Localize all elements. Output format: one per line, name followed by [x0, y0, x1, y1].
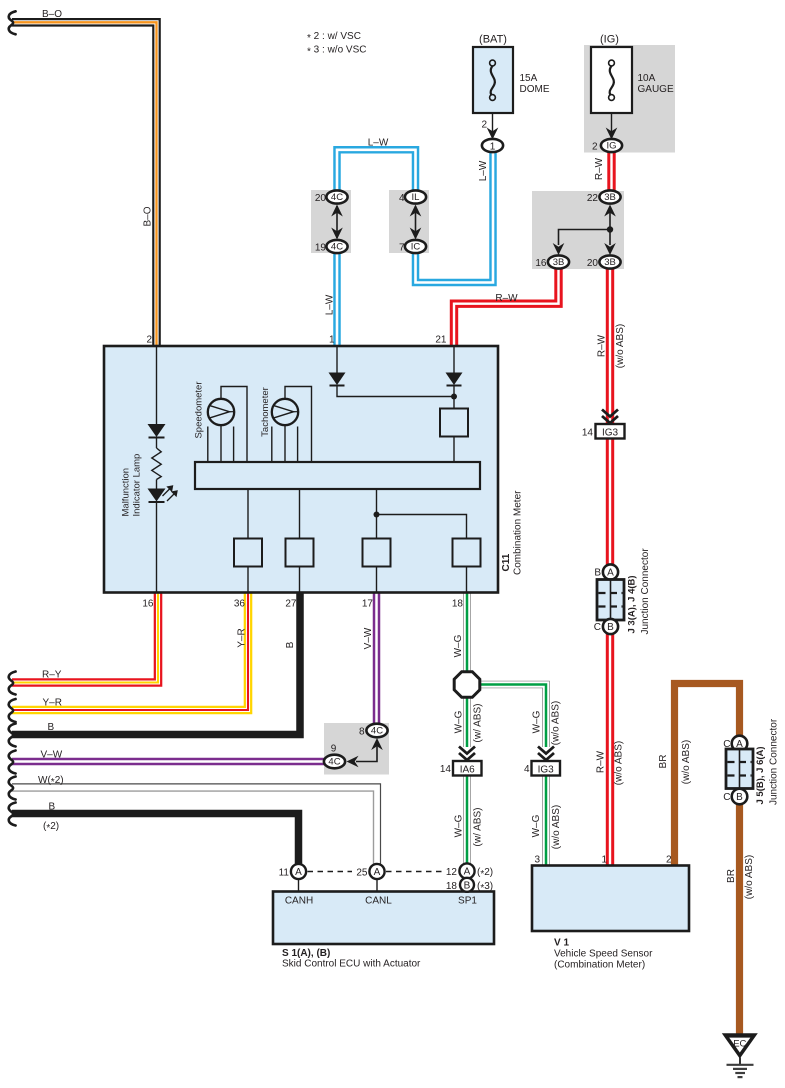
svg-text:CANH: CANH [285, 896, 313, 907]
wire bus to box B3 to pin 17 [376, 489, 378, 593]
link line 3B junction [559, 213, 611, 246]
svg-text:18: 18 [446, 881, 458, 892]
svg-text:3B: 3B [604, 257, 616, 268]
double chevron above IG3 (green) [538, 747, 554, 761]
connector box 14 IG3 (red wire) [596, 424, 625, 439]
svg-text:B: B [464, 880, 471, 891]
wire W-G from IG3 box down to V1 pin 3 [542, 775, 550, 866]
svg-text:W–G: W–G [532, 710, 543, 733]
svg-text:4C: 4C [331, 192, 343, 203]
junction connector J3(A) J4(B) circle A [603, 564, 618, 579]
svg-text:S 1(A), (B): S 1(A), (B) [282, 948, 330, 959]
svg-text:21: 21 [435, 335, 447, 346]
oval connector 3B (22) [599, 190, 620, 203]
svg-text:A: A [607, 568, 614, 579]
wire L-W from fuse oval 1 down-left to connector IC [416, 151, 494, 283]
svg-text:BR: BR [726, 869, 737, 883]
wire internal pin 1 to diode D1 [336, 346, 338, 373]
svg-text:B: B [607, 622, 614, 633]
oval connector IC (7) [405, 240, 426, 253]
wire R-W from 3B (16) down-left to C11 pin 21 [454, 267, 559, 346]
svg-text:4C: 4C [328, 757, 340, 768]
fuse 10A GAUGE box [591, 47, 632, 113]
EC ground triangle [722, 1033, 758, 1058]
svg-text:B–O: B–O [143, 206, 154, 226]
svg-text:Tachometer: Tachometer [260, 387, 271, 437]
svg-text:B: B [48, 722, 55, 733]
svg-text:Malfunction: Malfunction [121, 468, 132, 517]
svg-text:W–G: W–G [453, 634, 464, 657]
svg-text:4C: 4C [331, 242, 343, 253]
svg-text:20: 20 [587, 258, 599, 269]
svg-text:Junction Connector: Junction Connector [769, 718, 780, 805]
wire W-G branch from octagon right to IG3 chevron [479, 685, 546, 748]
svg-text:3B: 3B [553, 257, 565, 268]
svg-text:4C: 4C [371, 726, 383, 737]
break squiggle Y-R [9, 699, 16, 722]
oval terminal 1 [482, 139, 503, 152]
double chevron above IA6 [459, 747, 475, 761]
svg-text:DOME: DOME [520, 84, 550, 95]
internal bus bar [195, 462, 480, 489]
svg-text:C11: C11 [501, 553, 512, 571]
wire W-G from octagon down to IA6 chevron [463, 697, 471, 747]
internal box B1 [234, 539, 262, 567]
junction dot 3B [607, 226, 613, 232]
wire internal diode D2 to resistor box [453, 386, 455, 463]
svg-text:16: 16 [142, 599, 154, 610]
skid control ECU box S1 [273, 892, 494, 945]
wire internal from pin 2 to diode [156, 346, 158, 424]
svg-text:IG3: IG3 [538, 765, 555, 776]
svg-text:(Combination Meter): (Combination Meter) [554, 960, 645, 971]
svg-text:Y–R: Y–R [43, 698, 62, 709]
junction connector J5(B) J6(A) circle A [732, 736, 748, 752]
svg-text:J 5(B), J 6(A): J 5(B), J 6(A) [755, 746, 766, 804]
junction dot pin17 branch [374, 512, 380, 518]
svg-text:1: 1 [601, 855, 607, 866]
svg-text:Junction Connector: Junction Connector [640, 548, 651, 635]
internal box B3 [363, 539, 391, 567]
svg-text:SP1: SP1 [458, 896, 477, 907]
wire internal pin 21 to diode D2 [453, 346, 455, 373]
wire V-W from left edge to 4C (9) [12, 758, 325, 766]
svg-text:IL: IL [412, 192, 420, 203]
break squiggle B [9, 724, 16, 747]
gray background box for connector 4C pair (20/19) [311, 190, 351, 253]
svg-text:(w/o ABS): (w/o ABS) [744, 855, 755, 899]
svg-text:(w/o ABS): (w/o ABS) [551, 805, 562, 849]
svg-text:(w/o ABS): (w/o ABS) [615, 324, 626, 368]
svg-text:J 3(A), J 4(B): J 3(A), J 4(B) [627, 575, 638, 633]
svg-text:17: 17 [362, 599, 374, 610]
wire W-G from C11 pin 18 down to octagon [463, 593, 471, 673]
svg-text:B: B [594, 568, 601, 579]
wire R-W from IG oval down to 3B (22) [607, 151, 615, 192]
svg-text:L–W: L–W [325, 294, 336, 315]
svg-text:9: 9 [331, 744, 337, 755]
arrow down into 3B (20) [604, 243, 616, 255]
svg-text:10A: 10A [638, 73, 656, 84]
svg-text:(IG): (IG) [600, 34, 619, 46]
fuse 10A GAUGE symbol [610, 66, 614, 95]
svg-text:(w/ ABS): (w/ ABS) [473, 808, 484, 847]
tachometer frame [285, 387, 312, 463]
speedometer frame [221, 387, 247, 463]
svg-text:2: 2 [481, 120, 487, 131]
svg-text:1: 1 [490, 141, 496, 152]
wire bus to box B1 to pin 36 [247, 489, 249, 593]
ECU circle 11 A [291, 864, 306, 879]
svg-text:B: B [49, 802, 56, 813]
svg-text:W–G: W–G [454, 814, 465, 837]
svg-text:2: 2 [666, 855, 672, 866]
svg-text:(w/ ABS): (w/ ABS) [472, 704, 483, 743]
svg-text:V–W: V–W [41, 750, 63, 761]
svg-text:3: 3 [534, 855, 540, 866]
svg-text:2: 2 [146, 335, 152, 346]
svg-text:A: A [464, 867, 471, 878]
svg-text:20: 20 [315, 193, 327, 204]
svg-text:Speedometer: Speedometer [194, 381, 205, 438]
EC ground stem and bars [739, 1058, 741, 1065]
junction dot diodes [451, 394, 457, 400]
svg-text:11: 11 [279, 868, 290, 879]
gray background box for connector 4C pair (8/9) [324, 723, 389, 775]
svg-text:18: 18 [452, 599, 464, 610]
stub ECU circle 25 to box [376, 879, 378, 892]
junction connector J5(B) J6(A) circle B [732, 789, 748, 805]
wire internal diode D1 to bus node [337, 386, 454, 397]
svg-text:Indicator Lamp: Indicator Lamp [132, 454, 143, 517]
ECU circle 18 B [460, 878, 474, 892]
oval connector 4C (20) [326, 190, 347, 203]
speedometer gauge [208, 399, 234, 425]
stub ECU circle 11 to box [298, 879, 300, 892]
svg-text:R–Y: R–Y [42, 670, 62, 681]
wire branch node to box B4 to pin 18 [377, 515, 467, 593]
wire R-W from 3B (20) down to V1 pin 1 [606, 267, 614, 866]
arrow up into 3B (22) [604, 205, 616, 217]
svg-text:W–G: W–G [531, 814, 542, 837]
svg-text:A: A [374, 867, 381, 878]
svg-text:A: A [295, 867, 302, 878]
svg-text:4: 4 [399, 193, 405, 204]
svg-text:14: 14 [440, 764, 452, 775]
svg-text:(w/o ABS): (w/o ABS) [551, 701, 562, 745]
svg-text:C: C [594, 622, 601, 633]
tachometer leads [272, 425, 298, 462]
svg-text:IC: IC [411, 242, 421, 253]
junction connector J3(A) J4(B) grid [597, 580, 624, 621]
wire link from IG fuse to oval IG with arrow [611, 100, 613, 138]
svg-text:IG3: IG3 [602, 428, 619, 439]
dashed line ECU pin 11 to 25 [308, 871, 353, 873]
svg-text:B: B [285, 641, 296, 648]
svg-text:36: 36 [234, 599, 246, 610]
oval connector 4C (8) [366, 724, 387, 738]
svg-text:Combination Meter: Combination Meter [513, 490, 524, 575]
svg-text:(BAT): (BAT) [479, 34, 507, 46]
svg-text:V–W: V–W [363, 627, 374, 649]
svg-text:16: 16 [535, 258, 547, 269]
octagon noise filter [454, 672, 480, 698]
resistor box top right [440, 409, 468, 437]
wire L-W from connector IL up-left to connector 4C (20) [337, 150, 416, 192]
wire internal from LED to pin 16 [156, 502, 158, 593]
wire B-O from left edge to C11 pin 2 [12, 22, 157, 346]
resistor zigzag MIL [152, 448, 161, 480]
svg-text:Vehicle Speed Sensor: Vehicle Speed Sensor [554, 949, 653, 960]
LED arrows [163, 486, 178, 501]
break squiggle B-O [9, 11, 16, 34]
wire B(*2) from left edge to ECU pin 11 [12, 814, 299, 865]
svg-text:14: 14 [582, 428, 594, 439]
arrow left into 4C (9) [347, 756, 359, 768]
svg-text:L–W: L–W [368, 138, 389, 149]
svg-text:12: 12 [446, 867, 458, 878]
double arrow between IL and IC [415, 206, 417, 238]
svg-text:C: C [723, 792, 730, 803]
wire Y-R from C11 pin 36 to left edge [12, 593, 248, 711]
svg-text:R–W: R–W [597, 334, 608, 357]
svg-text:IA6: IA6 [460, 765, 475, 776]
arrow up into 4C (8) [371, 738, 383, 750]
break squiggle B(*2) [9, 803, 16, 826]
diode D1 (pin 1) [329, 373, 346, 386]
svg-text:R–W: R–W [596, 750, 607, 773]
svg-text:EC: EC [733, 1038, 746, 1049]
svg-text:8: 8 [359, 727, 365, 738]
connector box 14 IA6 [453, 761, 482, 776]
LED MIL [148, 489, 166, 502]
fuse 15A DOME box [473, 47, 513, 113]
diode MIL [148, 424, 166, 437]
svg-text:Y–R: Y–R [237, 628, 248, 647]
svg-text:GAUGE: GAUGE [638, 84, 674, 95]
combination meter C11 box [104, 346, 498, 593]
svg-text:27: 27 [285, 599, 297, 610]
wire V-W from C11 pin 17 down to 4C (8) [373, 593, 381, 725]
ECU circle 25 A [369, 864, 384, 879]
ECU circle 12 A [459, 863, 474, 878]
svg-text:BR: BR [658, 755, 669, 769]
oval connector IL (4) [405, 190, 426, 203]
svg-text:22: 22 [587, 193, 599, 204]
svg-text:(w/o ABS): (w/o ABS) [681, 740, 692, 784]
oval connector 4C (19) [326, 240, 347, 253]
svg-text:C: C [723, 739, 730, 750]
double chevron above IG3 (red) [602, 410, 618, 424]
connector box 4 IG3 [532, 761, 561, 776]
internal box B2 [286, 539, 314, 567]
junction connector J3(A) J4(B) circle B [603, 619, 618, 634]
svg-text:B–O: B–O [42, 9, 62, 20]
gray background box for IG fuse [584, 45, 675, 153]
dashed line ECU pin 25 to 12 [386, 871, 444, 873]
svg-text:W–G: W–G [454, 710, 465, 733]
svg-text:IG: IG [606, 141, 616, 152]
break squiggle V-W [9, 751, 16, 774]
wire W(*2) from left edge to ECU pin 25 [12, 784, 381, 864]
svg-text:V 1: V 1 [554, 938, 569, 949]
svg-text:3B: 3B [604, 192, 616, 203]
arrow down into 3B (16) [553, 243, 565, 255]
svg-text:Skid Control ECU with Actuator: Skid Control ECU with Actuator [282, 959, 421, 970]
link line 4C (8) to 4C (9) [356, 747, 377, 762]
fuse 15A DOME symbol [491, 66, 495, 95]
svg-text:B: B [736, 792, 743, 803]
oval terminal IG [601, 139, 622, 152]
wire L-W from connector 4C (19) down to C11 pin 1 [333, 251, 341, 346]
double arrow between 4C (20) and 4C (19) [336, 206, 338, 238]
svg-text:15A: 15A [520, 73, 538, 84]
svg-text:7: 7 [399, 243, 405, 254]
vehicle speed sensor V1 box [532, 866, 689, 932]
wire internal from diode through resistor to LED [156, 438, 158, 449]
oval connector 4C (9) [324, 755, 345, 769]
internal box B4 [453, 539, 481, 567]
wire bus to box B2 to pin 27 [299, 489, 301, 593]
svg-text:(w/o ABS): (w/o ABS) [614, 741, 625, 785]
svg-text:L–W: L–W [478, 160, 489, 181]
junction connector J5(B) J6(A) grid [726, 749, 753, 789]
wire W-G from IA6 box down to ECU pin 12 [463, 775, 471, 864]
svg-text:CANL: CANL [365, 896, 392, 907]
svg-text:1: 1 [329, 335, 335, 346]
svg-text:4: 4 [524, 764, 530, 775]
wire R-Y from C11 pin 16 to left edge [12, 593, 158, 683]
wire link from BAT fuse to oval 1 with arrow [492, 100, 494, 138]
oval connector 3B (16) [548, 255, 569, 268]
wire B from C11 pin 27 to left edge [12, 593, 300, 735]
svg-text:2: 2 [592, 142, 598, 153]
tachometer gauge [272, 399, 298, 425]
wire BR from V1 pin 2 up over to EC ground [675, 684, 740, 1035]
oval connector 3B (20) [599, 255, 620, 268]
gray background box for connector 3B group [532, 191, 624, 269]
svg-text:A: A [736, 739, 743, 750]
break squiggle R-Y [9, 672, 16, 695]
diode D2 (pin 21) [446, 373, 463, 386]
svg-text:19: 19 [315, 243, 327, 254]
speedometer leads [208, 425, 234, 462]
svg-text:R–W: R–W [495, 293, 518, 304]
break squiggle W(*2) [9, 777, 16, 800]
svg-text:R–W: R–W [594, 157, 605, 180]
gray background box for connector IL/IC pair [389, 190, 429, 253]
svg-text:25: 25 [356, 868, 368, 879]
